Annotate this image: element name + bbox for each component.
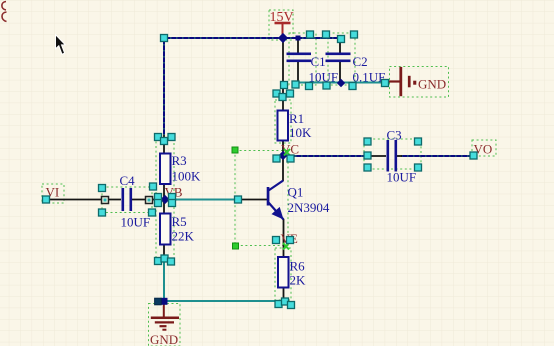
selection handles node VB <box>155 194 162 201</box>
svg-text:R5: R5 <box>172 214 187 229</box>
junction node VB <box>160 195 169 204</box>
selection box 15V power port <box>269 10 293 40</box>
selection handles node VE <box>273 237 280 244</box>
wire VB to base (teal segment) <box>171 199 238 201</box>
junction bottom node <box>161 298 168 305</box>
svg-text:10K: 10K <box>289 125 312 140</box>
label C2 value <box>353 54 386 85</box>
selection handles node VC <box>273 155 280 162</box>
wire emitter to VE to R6 <box>283 219 285 257</box>
mouse cursor <box>56 35 66 55</box>
selection handle green Q1 top-left <box>232 147 238 153</box>
capacitor C2 plates <box>326 53 351 63</box>
partial red text artifact top-left <box>2 2 7 22</box>
svg-text:100K: 100K <box>172 169 202 184</box>
selection box resistor R5 <box>156 202 174 258</box>
pin C3 right <box>397 155 402 157</box>
selection handle C4 pin left (ring) <box>102 197 109 204</box>
svg-text:10UF: 10UF <box>121 215 151 230</box>
capacitor C1 plates <box>287 53 312 63</box>
wire 15V rail down to R1 <box>282 39 284 110</box>
selection marker green X at VE <box>283 243 289 250</box>
selection handles top rail <box>161 35 168 42</box>
svg-text:GND: GND <box>418 77 446 92</box>
wire C4 to VB <box>132 199 165 201</box>
label R3 value <box>172 153 202 184</box>
label Q1 value <box>288 185 330 216</box>
svg-text:GND: GND <box>150 332 178 346</box>
svg-text:15V: 15V <box>270 10 294 25</box>
wire R6 to bottom rail <box>283 287 285 301</box>
selection handle base wire <box>235 196 242 203</box>
selection box port VI <box>42 184 64 203</box>
selection handle C4 pin right (ring) <box>146 197 153 204</box>
power port 15V symbol <box>275 23 291 37</box>
svg-text:C2: C2 <box>353 54 368 69</box>
selection box capacitor C4 <box>102 187 152 213</box>
label R1 value <box>289 111 312 140</box>
wire top rail 15V <box>164 37 342 39</box>
selection handle port VI <box>43 196 50 203</box>
wire C3 to VO <box>401 155 472 157</box>
svg-text:C4: C4 <box>120 173 136 188</box>
svg-text:R1: R1 <box>289 111 304 126</box>
svg-text:C1: C1 <box>311 54 326 69</box>
selection box power port GND bottom <box>149 304 181 346</box>
wire bottom rail to R6 (teal) <box>164 300 284 302</box>
label R6 value <box>290 259 307 288</box>
svg-text:C3: C3 <box>387 128 402 143</box>
selection box power port GND right <box>390 67 449 98</box>
selection box capacitor C1 <box>289 33 316 85</box>
junction 15V node <box>278 33 288 43</box>
selection handles R6 bottom <box>275 301 282 308</box>
wire pin R3 bottom to VB <box>163 184 165 200</box>
selection box resistor R1 <box>275 100 291 143</box>
selection handle green Q1 bottom-left <box>233 243 239 249</box>
selection handles C3 <box>364 152 371 159</box>
pin C2 top <box>339 38 341 53</box>
selection box resistor R6 <box>275 248 291 300</box>
label C3 value <box>387 128 417 185</box>
pin C1 top <box>297 38 299 53</box>
wire below R5 vertical (teal) <box>163 258 165 301</box>
svg-text:Q1: Q1 <box>288 185 304 200</box>
selection box resistor R3 <box>156 138 174 194</box>
junction node VC <box>278 151 287 160</box>
pin C1 bottom <box>297 61 299 83</box>
svg-text:0.1UF: 0.1UF <box>353 70 386 85</box>
pin C2 bottom <box>339 61 341 83</box>
svg-text:R6: R6 <box>290 259 306 274</box>
wire VI to C4 <box>47 199 121 201</box>
selection handles C1 C2 bottom rail <box>292 81 299 88</box>
wire pin R5 top <box>163 199 165 214</box>
label C4 value <box>120 173 151 230</box>
label C1 value <box>309 54 339 85</box>
wire pin R3 top <box>163 135 165 153</box>
selection marker green X at VC <box>284 149 290 156</box>
selection box capacitor C3 <box>364 139 421 169</box>
wire to Q1 base (black segment) <box>238 199 268 201</box>
junction C1 top <box>296 36 301 41</box>
svg-text:R3: R3 <box>172 153 187 168</box>
wire left vertical to R3 <box>163 38 165 135</box>
wire VC to C3 <box>283 155 367 157</box>
svg-text:2K: 2K <box>290 273 307 288</box>
pin C3 left <box>368 155 386 157</box>
selection handles C4 corners <box>99 185 106 192</box>
wire R1 to VC to collector <box>282 141 284 181</box>
wire C1 C2 bottoms to GND (teal) <box>297 82 386 84</box>
transistor Q1 body <box>267 181 284 220</box>
selection handles R5 bottom <box>155 258 162 265</box>
resistor R3 body <box>160 154 171 185</box>
capacitor C4 plates <box>122 188 133 211</box>
selection handles R3 top <box>155 134 162 141</box>
resistor R6 body <box>278 257 289 288</box>
selection box transistor Q1 <box>235 151 288 246</box>
wire pin R5 bottom <box>163 244 165 258</box>
svg-text:10UF: 10UF <box>387 170 417 185</box>
power port GND right symbol <box>389 67 417 96</box>
label R5 value <box>172 214 195 244</box>
resistor R1 body <box>278 111 289 141</box>
selection box capacitor C2 <box>328 33 355 85</box>
selection handles R1 top cluster <box>281 82 288 89</box>
svg-text:2N3904: 2N3904 <box>288 200 330 215</box>
junction C2 bottom <box>337 79 345 87</box>
svg-text:22K: 22K <box>172 229 195 244</box>
capacitor C3 plates <box>387 140 398 172</box>
selection box port VO <box>472 140 496 156</box>
selection handle bottom node <box>155 298 162 305</box>
power port GND bottom symbol <box>151 303 179 330</box>
resistor R5 body <box>160 214 171 245</box>
